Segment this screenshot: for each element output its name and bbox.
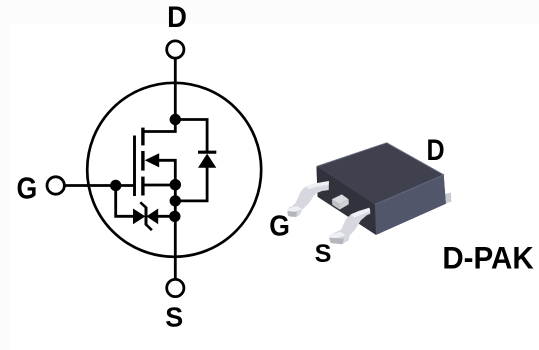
- terminal G: [47, 177, 64, 194]
- svg-text:G: G: [17, 172, 38, 206]
- wire gate horizontal: [65, 184, 135, 187]
- wire mosfet drain connection: [144, 120, 175, 132]
- package body right face: [375, 175, 446, 235]
- wire body connection: [158, 160, 175, 184]
- package body silhouette underlay: [317, 143, 446, 235]
- zener Z1 bar with tails: [145, 207, 148, 225]
- wire drain vertical: [174, 58, 177, 121]
- wire body-diode anode to source node: [175, 167, 207, 201]
- package body top face: [317, 143, 444, 205]
- node source dot 3: [169, 211, 180, 222]
- svg-text:D: D: [167, 1, 187, 34]
- body diode D1 cathode bar: [198, 151, 216, 154]
- mosfet Q1 channel dash bottom: [141, 177, 144, 196]
- wire mosfet source connection: [144, 184, 175, 187]
- wire source vertical: [174, 185, 177, 280]
- body diode D1 triangle: [198, 154, 216, 168]
- mosfet Q1 channel dash middle: [141, 151, 144, 171]
- transistor envelope circle: [87, 83, 261, 257]
- mosfet Q1 body arrow: [145, 153, 160, 167]
- svg-text:S: S: [165, 301, 183, 333]
- package edge highlight top-right: [317, 143, 444, 205]
- zener Z1 left triangle: [133, 209, 145, 225]
- node drain dot: [170, 114, 181, 125]
- svg-text:D: D: [427, 133, 445, 166]
- package drain tab: [444, 193, 451, 204]
- package lead S (gull wing): [329, 208, 370, 244]
- zener Z1 right triangle: [146, 209, 158, 225]
- svg-text:D-PAK: D-PAK: [442, 241, 533, 276]
- wire gate to zener: [116, 186, 134, 217]
- background tint top band: [0, 0, 539, 24]
- mosfet Q1 channel dash top: [141, 128, 144, 146]
- svg-text:S: S: [315, 240, 332, 268]
- node source dot 1: [170, 179, 181, 190]
- terminal S: [167, 279, 184, 296]
- terminal D: [167, 41, 184, 58]
- package lead G (gull wing): [288, 181, 329, 217]
- node gate dot: [110, 180, 121, 191]
- wire zener to source node: [158, 215, 175, 218]
- svg-text:G: G: [269, 210, 290, 242]
- wire drain to body-diode cathode: [175, 120, 207, 154]
- package body front-left face: [317, 167, 377, 235]
- package gate ledge bump: [332, 194, 349, 209]
- node source dot 2: [170, 195, 181, 206]
- mosfet Q1 gate bar: [133, 136, 136, 197]
